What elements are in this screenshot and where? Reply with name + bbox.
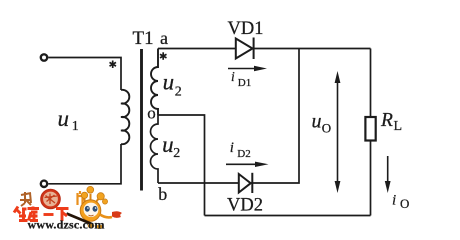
watermark: stylized character pian (orange) xyxy=(78,191,83,205)
svg-text:VD1: VD1 xyxy=(228,19,264,39)
svg-text:u: u xyxy=(163,70,175,95)
svg-text:i: i xyxy=(231,69,235,84)
terminal (bottom-left input) xyxy=(41,181,47,187)
svg-text:L: L xyxy=(394,119,403,134)
watermark: mascot pen (dark diagonal) xyxy=(67,214,94,225)
svg-text:O: O xyxy=(322,121,331,136)
svg-text:u: u xyxy=(312,110,322,132)
svg-text:1: 1 xyxy=(72,119,79,134)
watermark: mascot head with face xyxy=(80,200,101,222)
svg-text:D1: D1 xyxy=(238,77,251,89)
wire: RL branch down from top rail xyxy=(370,49,372,118)
arrow iD2 xyxy=(226,162,269,167)
arrow iO (load current) xyxy=(385,156,391,193)
svg-text:u: u xyxy=(162,132,174,157)
watermark: red text wei-ku-yi-xia xyxy=(14,207,69,222)
polarity dot (asterisk) secondary xyxy=(160,52,167,60)
svg-text:2: 2 xyxy=(175,85,182,100)
terminal (top-left input) xyxy=(41,54,47,60)
svg-text:T1: T1 xyxy=(133,28,154,49)
svg-text:i: i xyxy=(230,140,234,156)
diode VD1 xyxy=(236,38,254,60)
svg-text:R: R xyxy=(380,110,393,131)
arrow iD1 xyxy=(228,66,267,71)
svg-text:O: O xyxy=(400,196,409,211)
resistor RL xyxy=(365,117,375,141)
wire: top-left terminal to primary top xyxy=(48,58,121,91)
svg-text:www.dzsc.com: www.dzsc.com xyxy=(28,218,105,232)
svg-text:o: o xyxy=(147,103,156,122)
svg-text:b: b xyxy=(158,184,167,204)
watermark: mascot crown xyxy=(81,186,107,204)
watermark: red seal with xin character xyxy=(41,189,61,209)
svg-text:2: 2 xyxy=(173,146,180,161)
diode VD2 xyxy=(239,173,253,193)
svg-text:D2: D2 xyxy=(237,148,250,160)
polarity dot (asterisk) primary xyxy=(110,61,117,69)
watermark: mascot feet xyxy=(88,223,95,228)
wire: bottom rail xyxy=(205,215,371,217)
watermark: stylized character wo (orange-brown) xyxy=(20,192,31,206)
svg-text:a: a xyxy=(160,28,168,48)
wire: center tap o to bottom rail xyxy=(158,115,205,216)
watermark: mascot right arm with red flame xyxy=(100,211,122,218)
svg-text:u: u xyxy=(58,106,70,131)
transformer core T1 xyxy=(140,49,143,191)
secondary lower winding u2 (o to b) xyxy=(151,115,159,183)
wire: primary bottom to bottom-left terminal xyxy=(48,144,121,184)
wire: node a top rail to RL branch xyxy=(158,48,371,50)
primary winding of T1 (u1 side) xyxy=(121,90,129,144)
arrow uO (double-headed, output voltage) xyxy=(335,71,341,193)
secondary upper winding u2 (a to o) xyxy=(151,49,158,116)
svg-text:VD2: VD2 xyxy=(227,195,263,215)
wire: RL bottom to bottom rail xyxy=(370,141,372,216)
svg-text:i: i xyxy=(392,193,396,209)
wire: node b to VD2 and up to top rail xyxy=(158,49,299,184)
